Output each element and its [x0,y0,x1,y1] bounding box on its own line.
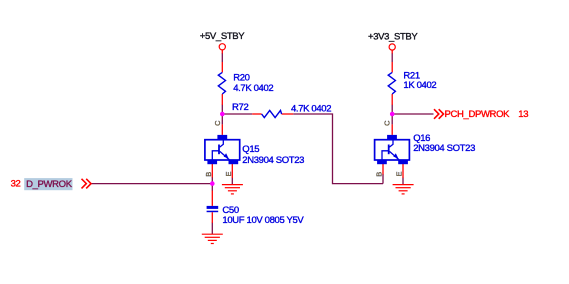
svg-text:13: 13 [518,109,528,120]
svg-text:+5V_STBY: +5V_STBY [200,31,245,42]
svg-text:+3V3_STBY: +3V3_STBY [368,31,418,42]
svg-text:C: C [213,120,222,126]
svg-text:10UF 10V 0805 Y5V: 10UF 10V 0805 Y5V [222,215,304,226]
svg-text:2N3904 SOT23: 2N3904 SOT23 [242,155,304,166]
svg-text:1K 0402: 1K 0402 [403,80,436,91]
svg-text:C: C [383,120,392,126]
svg-text:B: B [204,172,213,177]
svg-text:4.7K 0402: 4.7K 0402 [291,103,331,114]
svg-text:D_PWROK: D_PWROK [26,179,73,190]
svg-text:2N3904 SOT23: 2N3904 SOT23 [413,143,475,154]
svg-text:R72: R72 [232,102,248,113]
svg-text:E: E [395,171,404,176]
svg-text:4.7K 0402: 4.7K 0402 [233,83,273,94]
svg-text:R20: R20 [233,73,249,84]
svg-text:E: E [224,171,233,176]
svg-text:32: 32 [11,178,21,189]
svg-text:B: B [375,172,384,177]
svg-text:PCH_DPWROK: PCH_DPWROK [445,109,511,120]
svg-text:Q16: Q16 [413,133,430,144]
svg-text:Q15: Q15 [242,144,259,155]
